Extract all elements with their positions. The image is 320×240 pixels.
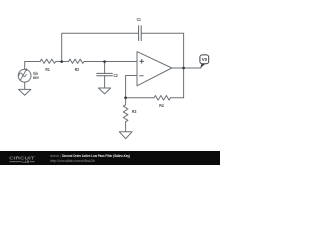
footer CircuitLab logo: [9, 155, 35, 164]
op-amp plus sign: [140, 59, 144, 63]
wire R4 to output column: [171, 97, 184, 99]
svg-text:alamas |: alamas |: [50, 154, 61, 158]
svg-text:V0: V0: [202, 57, 208, 62]
wire C1 right to output column: [142, 33, 184, 98]
net flag V0: [200, 55, 209, 68]
resistor R3: [123, 105, 128, 122]
voltage source arrow: [20, 70, 26, 81]
svg-text:R2: R2: [75, 67, 80, 72]
svg-text:LAB: LAB: [22, 160, 29, 164]
footer bar: [0, 151, 220, 165]
svg-text:C1: C1: [137, 17, 142, 22]
wire op-amp minus input: [126, 76, 137, 98]
op-amp minus sign: [139, 75, 143, 77]
capacitor C2: [97, 73, 113, 75]
node A junction dot: [60, 60, 63, 63]
wire node B to R3: [125, 98, 127, 105]
capacitor C1: [139, 26, 142, 41]
voltage source V1 circle: [18, 69, 31, 82]
resistor R1: [40, 59, 56, 63]
voltage source sine symbol: [19, 73, 26, 77]
node B junction dot: [124, 96, 127, 99]
op-amp U1: [137, 52, 172, 86]
wire op-amp output to V0 flag: [172, 67, 201, 69]
svg-text:sine: sine: [33, 75, 39, 80]
svg-text:R1: R1: [45, 67, 50, 72]
ground below C2: [99, 88, 111, 94]
output node junction dot: [182, 67, 185, 70]
wire source bottom stub to ground: [24, 82, 26, 89]
wire node B to R4: [126, 97, 154, 99]
svg-text:http://circuitlab.com/c8tsk3h: http://circuitlab.com/c8tsk3h: [50, 159, 95, 163]
resistor R2: [69, 59, 85, 63]
wire main input row: [25, 62, 41, 70]
wire R3 bottom to ground: [125, 122, 127, 132]
wire C2 top stub: [104, 62, 106, 74]
svg-text:C2: C2: [114, 73, 119, 78]
voltage source arrowhead: [25, 68, 28, 71]
svg-text:R3: R3: [132, 109, 137, 114]
svg-text:R4: R4: [159, 103, 164, 108]
wire node A up to C1 feedback row: [62, 33, 138, 61]
node C2 junction dot: [103, 60, 106, 63]
ground below R3: [119, 132, 132, 139]
svg-text:Second Order Active Low Pass F: Second Order Active Low Pass Filter (Sal…: [62, 154, 131, 158]
ground below source: [19, 89, 31, 95]
resistor R4: [154, 96, 171, 101]
wire R1 to node A: [56, 61, 69, 63]
wire R2 to op-amp plus input: [84, 61, 137, 63]
wire C2 bottom stub to ground: [104, 76, 106, 88]
